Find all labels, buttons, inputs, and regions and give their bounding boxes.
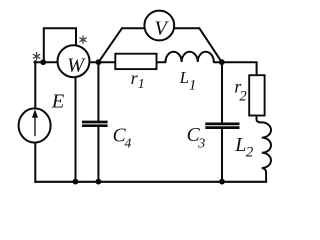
svg-text:3: 3 <box>197 137 205 152</box>
wire W bottom terminal down to rail <box>75 77 77 181</box>
asterisk marker at W top terminal <box>80 36 86 43</box>
source E circle <box>19 108 51 142</box>
wire C3 bottom to rail <box>221 129 223 182</box>
resistor r2 <box>249 75 264 115</box>
wattmeter W circle <box>58 45 90 77</box>
inductor L1 <box>166 52 214 62</box>
wire C4 bottom to rail <box>97 127 99 182</box>
capacitor C3 plates <box>205 124 239 128</box>
wire node B down to C4 <box>97 62 99 121</box>
wire r1 to L1 <box>157 61 166 63</box>
source E arrow <box>33 110 38 136</box>
capacitor C4 plates <box>82 122 108 126</box>
wire voltage-coil loop over W <box>44 28 76 62</box>
asterisk marker at node A <box>33 53 39 60</box>
wire bottom rail <box>35 181 266 183</box>
wire W right terminal to node B <box>89 61 98 63</box>
wire node A left stub <box>34 61 43 63</box>
wire r2 branch down to r2 top <box>256 62 258 75</box>
rail junction dot under C4 <box>96 179 102 185</box>
rail junction dot under C3 <box>219 179 225 185</box>
wire V right lead <box>174 27 199 29</box>
inductor L2 <box>257 116 272 182</box>
svg-text:1: 1 <box>138 77 145 92</box>
wire node A to W left terminal <box>43 61 58 63</box>
wire V left lead <box>122 27 145 29</box>
resistor r1 <box>115 54 156 69</box>
node A junction dot <box>40 59 46 65</box>
rail junction dot under W <box>73 179 79 185</box>
node B junction dot <box>96 59 102 65</box>
wire E branch upper <box>34 61 36 109</box>
node C junction dot <box>219 59 225 65</box>
wire L1 to node C <box>214 61 222 63</box>
svg-text:4: 4 <box>124 136 131 151</box>
svg-text:L: L <box>234 134 246 156</box>
wire node C down to C3 <box>221 62 223 123</box>
svg-text:W: W <box>67 55 86 77</box>
svg-text:2: 2 <box>239 88 246 104</box>
svg-text:E: E <box>51 90 65 112</box>
wire node C to r2 branch corner <box>222 61 257 63</box>
wire diagonal V right lead down to node C <box>199 28 222 62</box>
wire E bottom to rail <box>34 142 36 182</box>
svg-text:L: L <box>179 68 189 87</box>
svg-text:1: 1 <box>189 77 197 93</box>
wire diagonal node B up to V left lead <box>99 28 123 62</box>
voltmeter V circle <box>144 11 174 41</box>
svg-text:2: 2 <box>246 145 254 161</box>
wire node B to r1 <box>99 61 116 63</box>
